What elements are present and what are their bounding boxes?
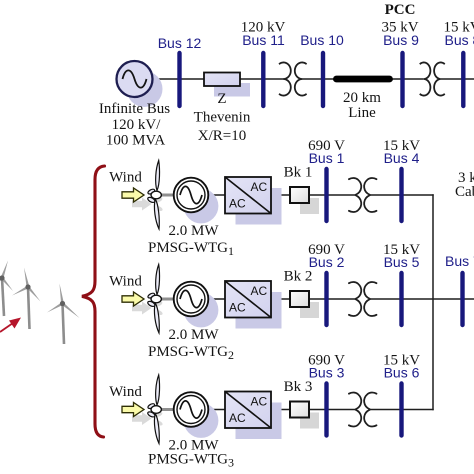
bus bar Bus 6 bbox=[399, 384, 403, 436]
wind arrow row 2 bbox=[122, 292, 144, 306]
red annotation arrow bbox=[0, 323, 13, 332]
breaker Bk 3 shadow bbox=[300, 413, 319, 429]
PMSG generator row 2 bbox=[174, 282, 209, 317]
svg-text:Bus 3: Bus 3 bbox=[309, 365, 345, 381]
converter shadow row 2 bbox=[236, 292, 282, 329]
transformer row 1 Bus1-Bus4 bbox=[349, 178, 377, 212]
bus bar Bus 4 bbox=[399, 169, 403, 221]
wind turbine rotor row 3 bbox=[147, 375, 177, 444]
svg-text:AC: AC bbox=[251, 395, 268, 409]
svg-text:20 km: 20 km bbox=[343, 90, 381, 106]
svg-text:Cable: Cable bbox=[455, 184, 474, 200]
bus bar Bus 2 bbox=[324, 273, 328, 325]
breaker Bk 2 shadow bbox=[300, 302, 319, 318]
svg-text:Bk 3: Bk 3 bbox=[284, 379, 313, 395]
svg-text:X/R=10: X/R=10 bbox=[198, 128, 246, 144]
svg-text:PMSG-WTG3: PMSG-WTG3 bbox=[148, 452, 234, 470]
wind arrow shadow row 3 bbox=[132, 412, 152, 425]
wind arrow shadow row 1 bbox=[132, 198, 152, 211]
svg-text:2.0 MW: 2.0 MW bbox=[169, 223, 220, 239]
wire generator to converter row 3 bbox=[206, 409, 225, 411]
svg-text:AC: AC bbox=[229, 197, 246, 211]
AC/AC converter U3 bbox=[225, 392, 271, 429]
wire transformer to Bus 5 and collector bbox=[370, 298, 474, 300]
infinite bus AC source bbox=[117, 61, 153, 97]
wire Bus 3 to transformer bbox=[327, 409, 356, 411]
wire transformer to Bus 6 and collector bbox=[370, 409, 434, 411]
svg-text:Bus 6: Bus 6 bbox=[384, 365, 420, 381]
wind turbine rotor row 2 bbox=[147, 265, 177, 334]
transformer T2 Bus9-Bus8 bbox=[420, 62, 445, 95]
svg-text:Bus 2: Bus 2 bbox=[309, 254, 345, 270]
bus bar Bus 7 bbox=[460, 273, 464, 325]
bus bar Bus 5 bbox=[399, 273, 403, 325]
svg-text:Bus 12: Bus 12 bbox=[158, 35, 202, 51]
20 km line (thick) bbox=[336, 76, 389, 83]
svg-text:2.0 MW: 2.0 MW bbox=[169, 327, 220, 343]
bus bar Bus 1 bbox=[324, 169, 328, 221]
wire generator to converter row 1 bbox=[206, 194, 225, 196]
generator shadow row 1 bbox=[184, 189, 219, 224]
svg-text:Thevenin: Thevenin bbox=[194, 110, 251, 126]
breaker Bk 2 bbox=[290, 291, 309, 307]
transformer row 3 Bus3-Bus6 bbox=[349, 392, 377, 426]
wire Z to transformer T1 bbox=[240, 78, 284, 80]
wire converter to breaker Bk 1 bbox=[271, 194, 290, 196]
wire transformer to Bus 4 and collector bbox=[370, 194, 434, 196]
svg-text:Bus 11: Bus 11 bbox=[242, 32, 285, 48]
wind turbine rotor row 1 bbox=[147, 161, 177, 230]
transformer T1 Bus11-Bus10 bbox=[279, 62, 307, 95]
breaker Bk 3 bbox=[290, 402, 309, 418]
svg-text:AC: AC bbox=[229, 411, 246, 425]
svg-text:PMSG-WTG1: PMSG-WTG1 bbox=[148, 240, 234, 258]
svg-text:Bk 1: Bk 1 bbox=[284, 165, 313, 181]
svg-text:Wind: Wind bbox=[109, 274, 142, 290]
svg-text:Wind: Wind bbox=[109, 384, 142, 400]
svg-text:Wind: Wind bbox=[109, 170, 142, 186]
bus bar Bus 11 bbox=[261, 53, 265, 106]
svg-text:Bus 1: Bus 1 bbox=[309, 150, 345, 166]
wire breaker to Bus 3 bbox=[309, 409, 327, 411]
wind arrow row 3 bbox=[122, 403, 144, 417]
generator shadow row 3 bbox=[184, 403, 219, 438]
svg-text:Bus 5: Bus 5 bbox=[384, 254, 420, 270]
wire Bus 2 to transformer bbox=[327, 298, 356, 300]
converter shadow row 1 bbox=[236, 188, 282, 225]
svg-text:120 kV/: 120 kV/ bbox=[112, 117, 162, 133]
infinite bus source shadow bbox=[127, 71, 163, 107]
svg-text:Z: Z bbox=[217, 91, 226, 107]
AC/AC converter U2 bbox=[225, 281, 271, 318]
svg-text:Line: Line bbox=[348, 105, 376, 121]
transformer row 2 Bus2-Bus5 bbox=[349, 282, 377, 316]
wind farm photo: turbine b bbox=[12, 268, 41, 330]
PMSG generator row 1 bbox=[174, 178, 209, 213]
svg-text:PMSG-WTG2: PMSG-WTG2 bbox=[148, 344, 234, 362]
svg-text:Infinite Bus: Infinite Bus bbox=[99, 101, 170, 117]
breaker Bk 1 shadow bbox=[300, 198, 319, 214]
svg-text:Bus 4: Bus 4 bbox=[384, 150, 420, 166]
bus bar Bus 8 bbox=[461, 53, 465, 106]
wire 20km line to T2 bbox=[393, 78, 424, 80]
bus bar Bus 3 bbox=[324, 384, 328, 436]
bus bar Bus 10 bbox=[321, 53, 325, 106]
svg-text:AC: AC bbox=[251, 180, 268, 194]
svg-text:100 MVA: 100 MVA bbox=[106, 133, 165, 149]
generator shadow row 2 bbox=[184, 293, 219, 328]
wire converter to breaker Bk 3 bbox=[271, 409, 290, 411]
wind farm photo: turbine a (partial, left edge) bbox=[0, 261, 13, 317]
wire breaker to Bus 1 bbox=[309, 194, 327, 196]
wire converter to breaker Bk 2 bbox=[271, 298, 290, 300]
wire Bus 1 to transformer bbox=[327, 194, 356, 196]
converter shadow row 3 bbox=[236, 403, 282, 440]
svg-text:Bus 7: Bus 7 bbox=[445, 253, 474, 269]
wind arrow row 1 bbox=[122, 188, 144, 202]
svg-text:Bus 9: Bus 9 bbox=[383, 32, 419, 48]
wire generator to converter row 2 bbox=[206, 298, 225, 300]
svg-text:Bus 8: Bus 8 bbox=[445, 32, 474, 48]
collector cable vertical wire bbox=[432, 194, 434, 410]
wire infinite bus to Z bbox=[153, 78, 205, 80]
red curly brace grouping WTGs bbox=[82, 166, 105, 437]
svg-text:AC: AC bbox=[251, 284, 268, 298]
wind arrow shadow row 2 bbox=[132, 302, 152, 315]
Z thevenin impedance bbox=[204, 73, 240, 87]
wire T1 to 20km line bbox=[302, 78, 334, 80]
bus bar Bus 9 (PCC) bbox=[400, 53, 404, 106]
PMSG generator row 3 bbox=[174, 392, 209, 427]
AC/AC converter U1 bbox=[225, 177, 271, 214]
svg-text:Bk 2: Bk 2 bbox=[284, 269, 313, 285]
svg-text:PCC: PCC bbox=[385, 2, 416, 18]
Z thevenin impedance shadow bbox=[214, 83, 250, 97]
svg-text:Bus 10: Bus 10 bbox=[300, 32, 344, 48]
svg-text:AC: AC bbox=[229, 301, 246, 315]
wire breaker to Bus 2 bbox=[309, 298, 327, 300]
wire T2 to Bus 8 and edge bbox=[441, 78, 474, 80]
breaker Bk 1 bbox=[290, 187, 309, 203]
bus bar Bus 12 bbox=[177, 53, 181, 106]
wind farm photo: turbine c bbox=[47, 284, 80, 345]
